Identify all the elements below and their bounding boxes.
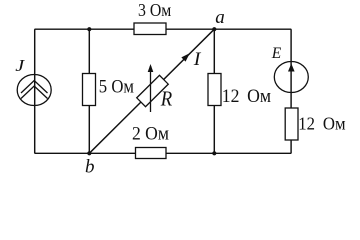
svg-text:J: J: [15, 56, 25, 75]
svg-text:b: b: [85, 156, 95, 177]
svg-text:a: a: [215, 7, 225, 28]
svg-text:3 Ом: 3 Ом: [138, 0, 172, 20]
svg-text:R: R: [160, 87, 172, 110]
svg-text:2 Ом: 2 Ом: [132, 123, 169, 144]
svg-text:E: E: [271, 45, 282, 62]
svg-text:12 Ом: 12 Ом: [298, 114, 345, 134]
svg-text:5 Ом: 5 Ом: [99, 76, 134, 97]
svg-text:12 Ом: 12 Ом: [222, 86, 272, 107]
